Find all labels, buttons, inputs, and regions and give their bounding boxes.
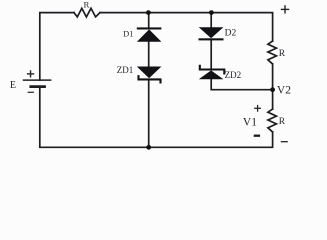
resistor R2 right upper	[268, 41, 277, 64]
zener diode ZD2	[199, 65, 225, 80]
wire branch 1 top stub	[148, 13, 150, 28]
wire branch 2 top stub	[210, 13, 212, 28]
wire left rail top + top rail left segment	[40, 13, 74, 81]
svg-text:R: R	[83, 0, 89, 9]
wire branch 2 between D2 and ZD2	[210, 40, 212, 69]
minus sign V1 bold	[254, 135, 260, 137]
diode D1	[137, 27, 162, 41]
wire right rail bottom + bottom rail + left rail bottom	[40, 88, 273, 148]
node junction bottom branch 1	[146, 145, 151, 150]
wire right rail middle	[272, 64, 274, 109]
wire branch 2 bottom to node V2	[211, 79, 272, 89]
svg-text:D1: D1	[123, 30, 133, 39]
diode D2	[199, 27, 224, 40]
svg-text:R: R	[279, 49, 286, 59]
battery minus sign	[28, 91, 34, 93]
node junction top branch 1	[146, 10, 151, 15]
svg-text:ZD2: ZD2	[225, 70, 242, 80]
wire branch 1 between D1 and ZD1	[148, 42, 150, 67]
resistor R3 right lower	[268, 109, 277, 132]
svg-text:ZD1: ZD1	[117, 65, 134, 75]
node V2 junction	[270, 87, 275, 92]
wire top rail right segment + right rail upper	[100, 13, 273, 41]
svg-text:D2: D2	[225, 28, 237, 38]
minus terminal bottom right	[281, 141, 288, 143]
plus terminal top right	[281, 5, 289, 13]
battery E plates	[23, 80, 52, 87]
svg-text:V1: V1	[243, 116, 257, 128]
svg-text:V2: V2	[277, 85, 291, 97]
svg-text:E: E	[10, 80, 16, 91]
wire branch 1 bottom	[148, 80, 150, 147]
battery plus sign	[27, 70, 34, 77]
zener diode ZD1	[137, 67, 162, 84]
plus sign V1	[254, 105, 261, 112]
node junction top branch 2	[209, 10, 214, 15]
resistor R1 top	[74, 8, 100, 17]
svg-text:R: R	[279, 117, 286, 127]
